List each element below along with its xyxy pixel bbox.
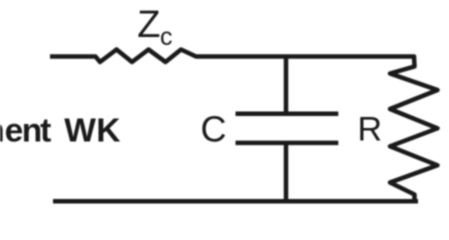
svg-text:C: C — [201, 109, 227, 150]
svg-text:Z: Z — [137, 4, 160, 46]
svg-text:t: t — [40, 112, 51, 149]
svg-text:W: W — [64, 112, 96, 149]
svg-text:R: R — [358, 110, 383, 148]
svg-text:me: me — [0, 112, 23, 149]
svg-text:c: c — [160, 23, 173, 51]
svg-text:K: K — [96, 112, 120, 149]
